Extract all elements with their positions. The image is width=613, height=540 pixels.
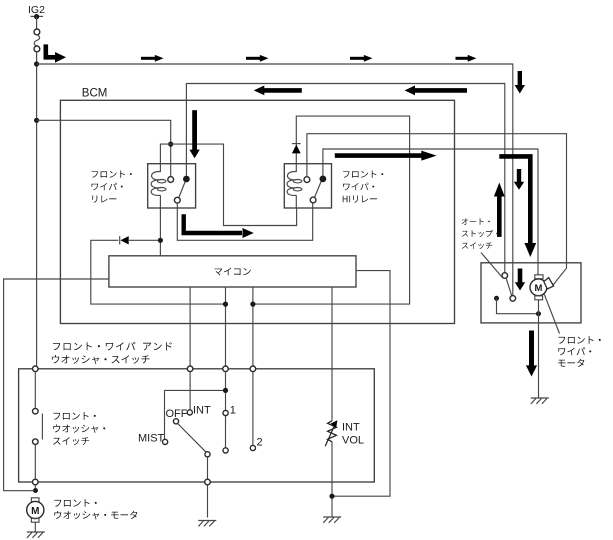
- svg-text:OFF: OFF: [166, 408, 188, 420]
- svg-text:M: M: [31, 506, 39, 517]
- svg-text:M: M: [534, 283, 542, 294]
- svg-text:MIST: MIST: [138, 433, 165, 445]
- svg-text:IG2: IG2: [28, 4, 45, 16]
- svg-text:INT: INT: [193, 405, 211, 417]
- svg-text:2: 2: [257, 437, 263, 449]
- svg-text:1: 1: [230, 405, 236, 417]
- svg-text:BCM: BCM: [82, 88, 108, 100]
- svg-text:INT: INT: [342, 422, 360, 434]
- svg-text:VOL: VOL: [342, 435, 364, 447]
